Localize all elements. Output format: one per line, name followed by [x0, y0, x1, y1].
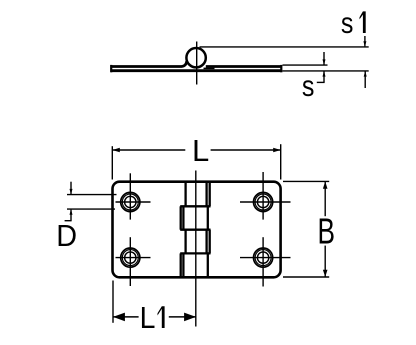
hole top-left: circles — [121, 192, 140, 211]
dimension L: line right part with arrow — [211, 148, 281, 152]
plan view: barrel left-knuckle verticals segment 3 — [186, 230, 210, 254]
dimension B: top extension line — [283, 180, 329, 182]
dimension s: top extension line (leaf top) — [283, 64, 328, 66]
side view: leaf top line right segment — [206, 65, 282, 68]
svg-text:s: s — [341, 7, 354, 40]
plan view: barrel left-knuckle verticals segment 1 — [186, 182, 210, 207]
hole top-right: center cross — [240, 172, 291, 220]
svg-text:s: s — [302, 70, 315, 103]
dimension s1: top extension line (knuckle top) — [200, 46, 369, 48]
dimension L: left extension line — [111, 146, 113, 179]
hole bottom-left: circles — [121, 248, 140, 267]
dimension s1: upper arrow (down) — [363, 36, 366, 47]
dimension D: lower arrow (up) with elbow leader — [65, 209, 73, 221]
dimension D: lower tangent line — [67, 208, 115, 210]
hole top-left: center cross — [116, 173, 151, 219]
side view: leaf left end cap — [110, 65, 112, 72]
dimension L1: line left part with arrow — [113, 313, 139, 322]
dimension L: right extension line — [280, 144, 282, 179]
dimension s1: lower arrow (up) — [364, 71, 367, 88]
dimension B: bottom extension line — [283, 276, 329, 278]
plan view: barrel transition line 2 — [180, 229, 210, 231]
dimension L: line left part with arrow — [112, 148, 185, 152]
svg-text:L: L — [140, 301, 156, 335]
dimension B: line lower part with arrow — [323, 246, 328, 277]
side view: leaf right end cap — [280, 65, 282, 72]
plan view: barrel transition line 1 — [180, 205, 210, 207]
dimension s1/s: bottom extension line (leaf bottom) — [283, 70, 369, 72]
svg-text:L: L — [192, 133, 209, 168]
plan view: barrel center line (extends to L1 extension) — [195, 171, 197, 327]
dimension D: upper tangent line — [67, 194, 117, 196]
dimension L1: left extension line — [112, 281, 114, 323]
dimension s: upper arrow (down) — [323, 52, 326, 65]
plan view: barrel right-knuckle verticals segment 4 — [181, 253, 208, 277]
side view: leaf bottom line — [111, 69, 282, 72]
side view: knuckle center line — [196, 42, 198, 85]
plan view: barrel transition line 3 — [180, 252, 210, 254]
dimension s: lower arrow (up) with elbow leader — [317, 71, 326, 83]
hole bottom-right: center cross — [240, 237, 291, 286]
side view: leaf top line left segment with curl rise — [111, 61, 187, 67]
hole bottom-right: circles — [254, 248, 273, 267]
plan view: barrel right-knuckle verticals segment 2 — [181, 206, 208, 229]
svg-text:B: B — [318, 211, 336, 252]
dimension D: upper arrow (down) — [70, 182, 73, 195]
side view: knuckle curl tail — [204, 67, 215, 69]
dimension B: line upper part with arrow — [323, 181, 328, 216]
svg-text:D: D — [56, 218, 77, 253]
side view: knuckle circle — [186, 48, 205, 67]
plan view: part outline rounded rectangle — [113, 182, 281, 278]
hole bottom-left: center cross — [116, 237, 151, 286]
hole top-right: circles — [254, 192, 273, 211]
dimension L1: line right part with arrow — [169, 313, 196, 322]
